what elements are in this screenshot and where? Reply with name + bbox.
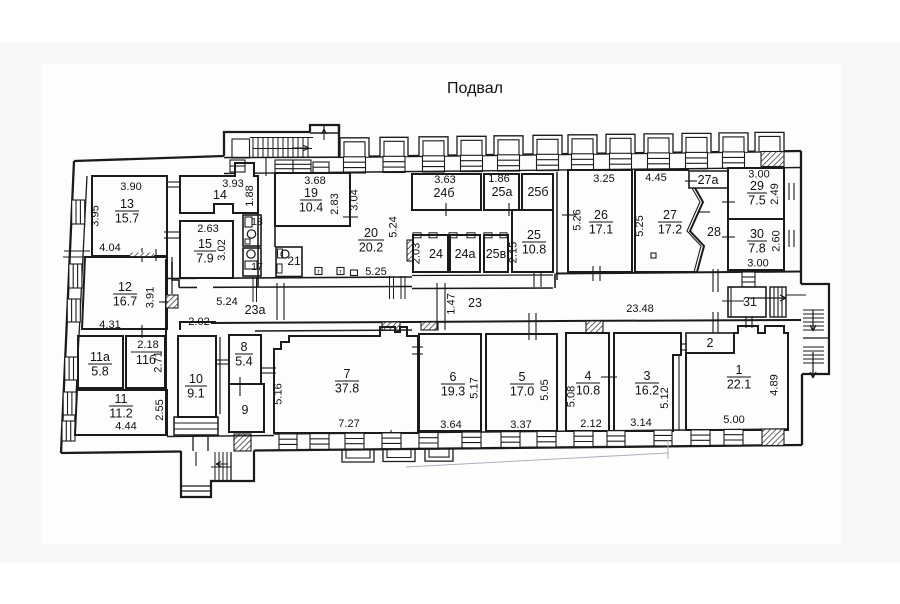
porch door tick (195, 452, 197, 466)
svg-text:7.8: 7.8 (748, 242, 765, 256)
wc 18 fixture (245, 217, 252, 227)
hatched block wall left corridor (166, 295, 178, 308)
window left wall (62, 421, 75, 441)
svg-text:5.12: 5.12 (659, 387, 671, 408)
tick left wall a (64, 250, 90, 252)
corridor bottom wall upper line (211, 320, 801, 323)
stair enclosure outline top-center (224, 132, 310, 156)
window below stair small (313, 162, 329, 173)
faint pencil line (406, 453, 668, 467)
shaft walls between 14 and 19 (257, 213, 259, 287)
room 10 (178, 336, 216, 417)
ticks below wc 17 (252, 277, 254, 302)
stair landing box top (310, 125, 339, 133)
svg-text:2.18: 2.18 (137, 339, 158, 351)
svg-text:25: 25 (527, 228, 541, 242)
tick room 31 (722, 300, 744, 302)
svg-text:7: 7 (344, 367, 351, 381)
ticks opening room12-15 (164, 231, 180, 233)
svg-text:3.63: 3.63 (434, 174, 455, 186)
tick room 28 (698, 211, 710, 213)
right stair shaft treads (803, 309, 824, 311)
room 21 (276, 247, 302, 277)
svg-text:3.25: 3.25 (593, 173, 614, 185)
svg-text:12: 12 (118, 280, 132, 294)
wall 3 right inner (678, 355, 680, 431)
svg-text:3.37: 3.37 (510, 419, 531, 431)
porch steps (181, 485, 211, 487)
svg-text:24а: 24а (455, 247, 476, 261)
svg-text:1.86: 1.86 (488, 173, 509, 185)
svg-text:2.49: 2.49 (769, 183, 781, 204)
svg-text:22.1: 22.1 (727, 378, 751, 392)
tick at 3.91 (159, 301, 168, 303)
stair treads top-center (252, 138, 254, 158)
svg-text:4.45: 4.45 (645, 172, 666, 184)
window under bay 9 (648, 153, 670, 169)
corridor top wall mid section (412, 274, 553, 277)
outer wall top main (339, 151, 801, 157)
svg-text:6: 6 (450, 370, 457, 384)
svg-text:3.93: 3.93 (222, 178, 243, 190)
window bay 10 top wall (682, 133, 711, 152)
svg-text:19: 19 (304, 186, 318, 200)
corridor 2.02 step (180, 322, 216, 330)
svg-text:20.2: 20.2 (359, 241, 383, 255)
ticks below room 31 (745, 316, 747, 328)
window bay 11 top wall (719, 133, 748, 152)
svg-text:15: 15 (198, 237, 212, 251)
corridor opening ticks x713 (712, 269, 714, 292)
svg-text:11.2: 11.2 (109, 407, 132, 421)
svg-text:2.83: 2.83 (329, 193, 341, 214)
tick room 13 bottom b (155, 249, 157, 261)
corridor top wall left part lower line (179, 286, 197, 288)
window left wall (72, 200, 85, 224)
stair enclosure right wall (338, 125, 340, 157)
room 27 (635, 170, 689, 272)
svg-text:29: 29 (750, 179, 764, 193)
svg-text:3.00: 3.00 (747, 258, 768, 270)
window left below stair (230, 160, 245, 172)
svg-text:10.8: 10.8 (576, 384, 600, 398)
svg-text:5.25: 5.25 (365, 266, 386, 278)
corridor top wall left part upper line (166, 277, 197, 279)
svg-text:2.63: 2.63 (197, 223, 218, 235)
stair treads top line (250, 137, 313, 139)
tick left wall b (63, 256, 89, 258)
corridor opening ticks x529 room 5 (528, 313, 530, 340)
svg-text:17.2: 17.2 (658, 223, 682, 237)
svg-text:3.02: 3.02 (216, 239, 228, 260)
svg-text:2.55: 2.55 (154, 399, 166, 420)
svg-text:9: 9 (242, 403, 249, 417)
svg-text:26: 26 (594, 208, 608, 222)
svg-text:27а: 27а (698, 173, 719, 187)
window left wall (67, 299, 80, 322)
ticks opening room13-14 (166, 181, 181, 183)
svg-text:25в: 25в (486, 247, 507, 261)
room 29 (728, 168, 784, 219)
svg-text:23: 23 (468, 296, 482, 310)
room 19 (275, 173, 350, 226)
corridor opening ticks x534 (533, 272, 535, 287)
svg-text:4.89: 4.89 (769, 374, 781, 395)
line under 2.18 (131, 351, 162, 353)
window bottom wall (654, 430, 672, 446)
tick room 12 bottom (141, 325, 143, 338)
window bay 9 top wall (644, 134, 673, 153)
svg-text:28: 28 (707, 225, 721, 239)
window bottom wall (537, 431, 556, 447)
room 25в (484, 235, 508, 272)
tick room 13 bottom (141, 248, 143, 262)
window left wall (65, 357, 78, 380)
window bottom wall (574, 431, 593, 447)
svg-text:3.04: 3.04 (349, 189, 361, 210)
stair enclosure bottom wall line (224, 156, 339, 158)
room 8 (229, 335, 261, 384)
svg-text:7.9: 7.9 (196, 252, 213, 266)
outer wall right (800, 151, 802, 284)
svg-text:10.4: 10.4 (299, 201, 323, 215)
sill box corridor right (742, 272, 755, 287)
svg-text:10.8: 10.8 (522, 243, 546, 257)
room 15 (180, 221, 233, 278)
window bay 1 top wall (340, 138, 369, 157)
svg-text:1.47: 1.47 (446, 293, 458, 314)
window bottom wall (382, 433, 401, 449)
room 27 zigzag wall (690, 188, 704, 272)
right wall window marks (788, 183, 790, 200)
window under bay 5 (498, 155, 520, 171)
ticks opening room 8 left (216, 359, 229, 361)
svg-text:16.7: 16.7 (113, 295, 137, 309)
window under bay 4 (461, 155, 483, 171)
room 14 (180, 163, 258, 213)
svg-text:2.12: 2.12 (580, 418, 601, 430)
stair left landing (232, 139, 250, 158)
window bay 7 top wall (568, 135, 597, 154)
svg-text:5.16: 5.16 (273, 383, 285, 404)
svg-text:4.44: 4.44 (115, 421, 136, 433)
svg-text:3.95: 3.95 (90, 205, 102, 226)
svg-text:5.24: 5.24 (216, 296, 237, 308)
svg-text:16.2: 16.2 (635, 384, 659, 398)
svg-text:4.31: 4.31 (99, 319, 120, 331)
window under bay 3 (423, 156, 445, 172)
svg-text:3.68: 3.68 (304, 175, 325, 187)
corridor bottom wall lower line left (255, 330, 412, 331)
ticks wall above room 2 (712, 312, 714, 333)
ticks wall 7|6 (412, 346, 423, 348)
room 25б (522, 174, 553, 210)
window bay 6 top wall (533, 135, 562, 154)
svg-text:18: 18 (251, 216, 263, 228)
tick room 26 left (562, 214, 576, 216)
right wall inner (783, 168, 785, 272)
svg-text:15.7: 15.7 (115, 212, 139, 226)
window below stair enclosure a (275, 160, 293, 173)
window bottom wall (607, 431, 625, 447)
window under bay 11 (723, 152, 745, 168)
room 27а (689, 171, 728, 188)
svg-text:19.3: 19.3 (441, 385, 465, 399)
tick 24б bottom (445, 203, 447, 216)
right stair arrow down (810, 352, 816, 378)
line into right stair shaft (786, 294, 806, 296)
room 31 (728, 287, 766, 317)
bottom wall inner line (167, 436, 274, 437)
wc room 17 (243, 248, 261, 276)
svg-text:37.8: 37.8 (335, 382, 359, 396)
outer wall right lower (801, 374, 803, 445)
outer wall left slanted (61, 161, 74, 453)
window bottom wall (691, 430, 710, 446)
svg-text:3.90: 3.90 (120, 181, 141, 193)
tick rooms 8-9 divider (239, 377, 241, 396)
svg-text:5.00: 5.00 (723, 414, 744, 426)
tick room 29 left (722, 201, 735, 203)
corridor top wall right part (556, 272, 801, 274)
room 11б (126, 336, 165, 388)
porch arrow (216, 462, 228, 467)
corridor opening ticks 23а (276, 283, 278, 320)
room 9 (229, 384, 264, 432)
tick room 27а (685, 180, 697, 182)
window bottom wall (419, 433, 438, 449)
stair arrow up (322, 129, 327, 140)
svg-text:27: 27 (663, 208, 677, 222)
svg-text:5.08: 5.08 (566, 386, 578, 407)
room 3 (614, 333, 681, 431)
svg-text:3.64: 3.64 (440, 419, 461, 431)
window bay 5 top wall (494, 136, 523, 155)
svg-text:3.00: 3.00 (748, 169, 769, 181)
window bottom wall (462, 432, 481, 448)
svg-text:13: 13 (120, 197, 134, 211)
svg-text:2.71: 2.71 (153, 351, 165, 372)
svg-text:5.17: 5.17 (469, 377, 481, 398)
room 6 (419, 334, 481, 431)
room 12 (82, 257, 167, 329)
svg-text:2.15: 2.15 (508, 242, 520, 263)
svg-text:5.4: 5.4 (235, 355, 252, 369)
window under bay 7 (572, 154, 594, 170)
room 24 (413, 235, 448, 272)
svg-text:2: 2 (707, 336, 714, 350)
svg-text:9.1: 9.1 (187, 387, 204, 401)
corridor opening ticks x437 (436, 283, 438, 330)
tick 25а bottom (508, 203, 510, 216)
corridor top wall step left (172, 262, 179, 288)
window under bay 8 (610, 153, 632, 169)
svg-text:5.8: 5.8 (91, 365, 108, 379)
svg-text:23.48: 23.48 (626, 303, 654, 315)
outlets room 20 (315, 268, 322, 275)
window bay 12 top wall (755, 132, 784, 151)
svg-text:3: 3 (644, 369, 651, 383)
window bottom wall (310, 434, 329, 450)
inner line left wall (74, 176, 87, 436)
window left wall (69, 264, 82, 288)
svg-text:8: 8 (241, 340, 248, 354)
room 2 (686, 333, 734, 353)
room 10 right wall second face (219, 337, 221, 414)
window under bay 10 (686, 152, 708, 168)
svg-text:20: 20 (364, 226, 378, 240)
dash strip room 13 bottom wall (130, 253, 154, 257)
left block inner wall vertical (165, 259, 167, 436)
tick wall 4|3 (601, 376, 617, 378)
svg-text:11: 11 (115, 392, 128, 406)
window bay 2 top wall (380, 137, 408, 156)
room 11 (75, 390, 167, 435)
svg-text:4: 4 (585, 369, 592, 383)
tick room 30 left (722, 236, 735, 238)
svg-text:т: т (317, 270, 320, 276)
svg-text:25б: 25б (527, 185, 548, 199)
right stair landing line (803, 337, 829, 339)
svg-text:2.02: 2.02 (188, 316, 209, 328)
room 25а (484, 174, 519, 210)
room 13 (92, 176, 167, 256)
interior entrance steps (174, 417, 218, 435)
svg-text:24: 24 (429, 247, 443, 261)
svg-text:4.04: 4.04 (99, 242, 120, 254)
entrance porch outline bottom (181, 451, 254, 498)
svg-text:11а: 11а (90, 350, 110, 364)
tick room 19 right (343, 216, 358, 218)
ticks opening room 8 right (261, 367, 276, 369)
hatch room24 left wall (407, 240, 413, 261)
svg-text:7.27: 7.27 (338, 418, 359, 430)
svg-text:5: 5 (519, 370, 526, 384)
shaft wall right of 25б (556, 172, 558, 280)
svg-text:14: 14 (213, 188, 227, 202)
svg-text:25а: 25а (492, 185, 513, 199)
outer stair shaft right (801, 284, 829, 374)
room 5 (486, 334, 557, 431)
room 24а (450, 235, 480, 272)
room 25 (512, 210, 553, 272)
window under bay 2 (383, 156, 405, 172)
svg-text:1.88: 1.88 (244, 185, 256, 206)
window bay 4 top wall (457, 136, 486, 155)
outer wall top-left (74, 156, 224, 161)
right stair arrow down upper (810, 310, 816, 331)
window bottom wall (501, 432, 520, 448)
window bottom wall (279, 434, 297, 450)
wc 17 fixture (247, 250, 255, 258)
svg-text:2.60: 2.60 (771, 230, 783, 251)
door jambs room 20 to corridor (389, 276, 391, 299)
room 4 (566, 333, 609, 431)
svg-text:17.0: 17.0 (510, 385, 534, 399)
wall 5|4 right line (565, 333, 567, 431)
svg-text:17.1: 17.1 (589, 223, 613, 237)
window bay 8 top wall (606, 134, 635, 153)
porch stair treads (214, 452, 216, 481)
svg-text:5.05: 5.05 (539, 379, 551, 400)
window bottom wall (345, 433, 364, 449)
svg-text:7.5: 7.5 (748, 194, 765, 208)
svg-text:3.91: 3.91 (145, 287, 157, 308)
window under bay 1 (344, 157, 366, 173)
stair arrow right (292, 145, 309, 151)
ticks wall 3|2 (680, 343, 687, 345)
svg-text:1: 1 (736, 363, 743, 377)
hatched block top right wall (761, 152, 784, 167)
room 7 (274, 327, 418, 433)
svg-text:31: 31 (743, 295, 757, 309)
window under bay 6 (537, 154, 559, 170)
sill ticks on rooms 24 row top (413, 233, 421, 238)
room 30 (728, 219, 784, 270)
room 1 (686, 326, 788, 430)
svg-text:3.14: 3.14 (630, 417, 651, 429)
svg-text:5.26: 5.26 (572, 209, 584, 230)
hatch bottom wall porch (234, 434, 251, 451)
hatch corridor wall c (586, 321, 603, 333)
svg-text:21: 21 (287, 254, 301, 268)
room 11а (78, 336, 123, 388)
svg-text:5.25: 5.25 (634, 215, 646, 236)
svg-text:10: 10 (189, 372, 203, 386)
hatch bottom wall right (762, 429, 784, 446)
room 21 fixture (281, 250, 289, 258)
hatch corridor wall a (382, 322, 400, 330)
wc room 18 (243, 215, 261, 246)
bottom bays (342, 449, 374, 462)
window left wall (63, 392, 76, 415)
svg-text:5.24: 5.24 (388, 216, 400, 237)
svg-text:Подвал: Подвал (447, 80, 503, 97)
outer wall bottom left section (61, 452, 181, 454)
window bay 3 top wall (419, 137, 448, 156)
svg-text:24б: 24б (433, 186, 454, 200)
tick room 26 bottom a (592, 266, 594, 281)
svg-text:2.03: 2.03 (411, 243, 423, 264)
room 24б (412, 174, 481, 210)
tick below 7.27 (390, 430, 392, 441)
window below stair enclosure b (293, 160, 311, 173)
socket room 27 (651, 253, 656, 258)
inner line top wall (224, 172, 235, 174)
svg-text:23а: 23а (245, 303, 266, 317)
small stair right of 31 (770, 287, 786, 317)
svg-text:30: 30 (750, 227, 764, 241)
outer wall bottom right section (254, 445, 802, 451)
hatch corridor wall b (421, 322, 438, 330)
arrow to right stair (748, 295, 786, 301)
room 26 (568, 170, 632, 272)
stair center line (253, 148, 312, 150)
corridor 23a left wall second face (171, 257, 173, 294)
svg-text:т: т (339, 270, 342, 276)
window bottom wall (724, 430, 743, 446)
tick room 26 bottom b (599, 266, 601, 281)
